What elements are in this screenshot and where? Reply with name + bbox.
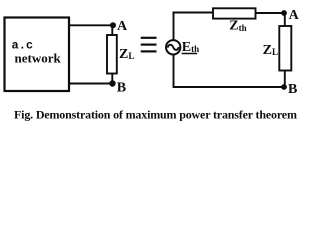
svg-text:network: network — [15, 51, 62, 66]
svg-text:Zth: Zth — [229, 19, 246, 34]
svg-text:Eth: Eth — [182, 40, 199, 55]
resistor Zth — [213, 8, 256, 18]
a.c network box — [5, 18, 70, 92]
wire ZL top lead — [111, 25, 113, 35]
underline of Eth — [182, 53, 198, 55]
svg-text:B: B — [117, 81, 126, 96]
source Eth circle — [166, 40, 180, 54]
wire Zth to node A — [256, 12, 285, 14]
wire source to top — [173, 12, 175, 40]
node A (right circuit) — [281, 10, 287, 16]
wire ZL bottom lead — [111, 74, 113, 84]
wire top left-circuit — [68, 24, 112, 26]
wire ZL to node B — [284, 71, 286, 88]
sine wave inside source — [168, 45, 179, 50]
svg-text:ZL: ZL — [263, 43, 278, 58]
node B (right circuit) — [281, 84, 287, 90]
svg-text:Fig. Demonstration of maximum: Fig. Demonstration of maximum power tran… — [14, 108, 297, 122]
svg-text:A: A — [289, 8, 300, 23]
svg-text:B: B — [288, 82, 297, 97]
node B (left circuit) — [109, 80, 115, 86]
wire top right-circuit — [173, 12, 213, 14]
wire bottom to source — [173, 55, 175, 88]
node A (left circuit) — [110, 22, 116, 28]
equivalence sign — [141, 38, 157, 52]
wire bottom left-circuit — [68, 83, 112, 85]
resistor ZL (right circuit) — [279, 26, 291, 71]
wire bottom right-circuit — [174, 86, 285, 88]
resistor ZL (left circuit) — [107, 35, 117, 74]
svg-text:ZL: ZL — [119, 47, 134, 62]
wire node A down to ZL — [284, 13, 286, 26]
svg-text:A: A — [117, 19, 128, 34]
